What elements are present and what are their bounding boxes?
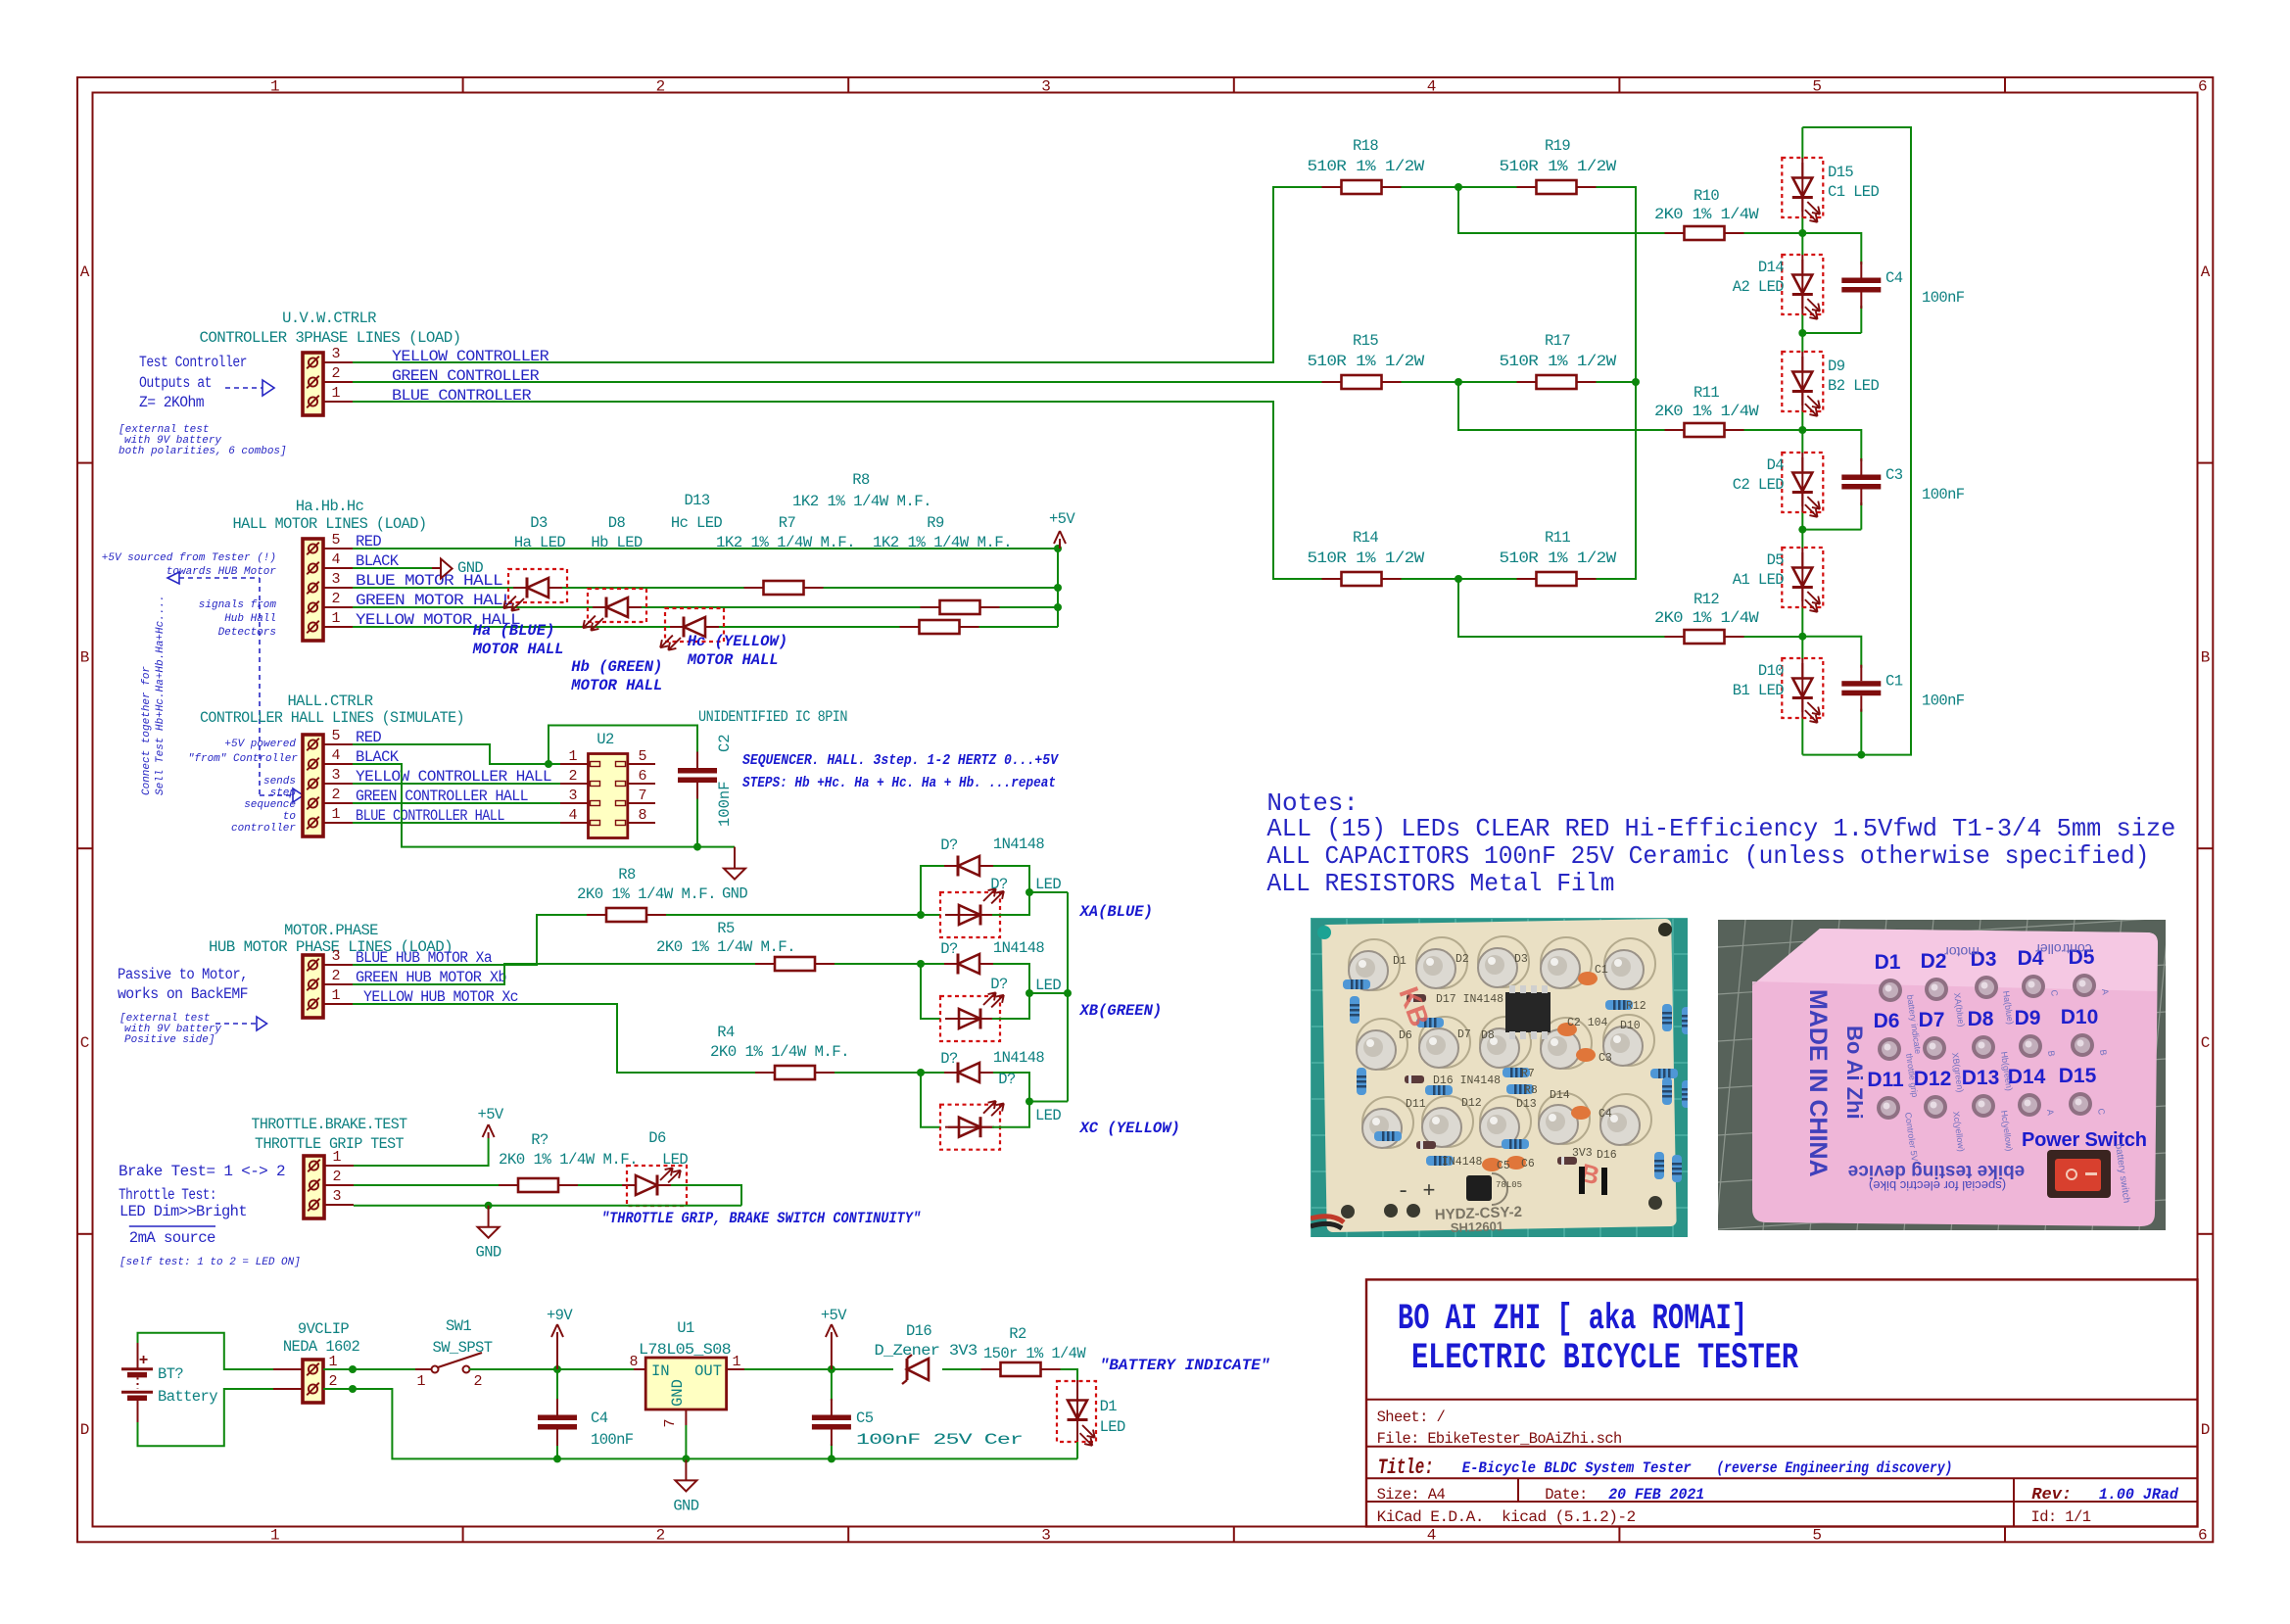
svg-text:both polarities, 6 combos]: both polarities, 6 combos] <box>119 446 287 457</box>
svg-text:A2 LED: A2 LED <box>1733 278 1785 296</box>
svg-text:R14: R14 <box>1353 529 1378 547</box>
svg-text:+5V: +5V <box>478 1106 504 1123</box>
svg-text:C4: C4 <box>591 1409 608 1427</box>
svg-text:D6: D6 <box>648 1129 666 1147</box>
svg-text:LED: LED <box>1035 1107 1061 1124</box>
svg-text:C2 104: C2 104 <box>1567 1017 1608 1029</box>
svg-text:510R 1% 1/2W: 510R 1% 1/2W <box>1500 353 1617 370</box>
svg-text:MOTOR HALL: MOTOR HALL <box>687 651 779 669</box>
svg-text:100nF: 100nF <box>1922 693 1965 710</box>
svg-text:D3: D3 <box>1514 953 1528 966</box>
svg-text:MOTOR HALL: MOTOR HALL <box>570 677 662 694</box>
svg-text:D6: D6 <box>1399 1029 1412 1042</box>
svg-text:2K0 1% 1/4W: 2K0 1% 1/4W <box>1654 403 1759 420</box>
svg-text:Detectors: Detectors <box>218 627 276 639</box>
svg-text:LED: LED <box>1100 1418 1125 1436</box>
svg-text:Ha.Hb.Hc: Ha.Hb.Hc <box>296 498 364 515</box>
svg-text:100nF 25V Cer: 100nF 25V Cer <box>856 1431 1023 1449</box>
svg-text:Hb LED: Hb LED <box>591 534 643 551</box>
svg-text:IN4148: IN4148 <box>1442 1156 1483 1169</box>
svg-text:510R 1% 1/2W: 510R 1% 1/2W <box>1308 158 1425 175</box>
svg-text:6: 6 <box>638 768 646 785</box>
svg-text:4: 4 <box>1427 78 1437 96</box>
svg-text:R12: R12 <box>1694 591 1719 608</box>
svg-text:Rev:: Rev: <box>2031 1486 2072 1505</box>
svg-text:1.00 JRad: 1.00 JRad <box>2099 1486 2179 1504</box>
svg-text:+: + <box>139 1352 149 1369</box>
svg-text:ebike testing device: ebike testing device <box>1848 1161 2026 1181</box>
svg-text:GREEN CONTROLLER: GREEN CONTROLLER <box>392 367 539 385</box>
svg-text:D7: D7 <box>1919 1009 1945 1031</box>
svg-text:100nF: 100nF <box>591 1431 634 1449</box>
svg-text:510R 1% 1/2W: 510R 1% 1/2W <box>1308 549 1425 567</box>
svg-text:C: C <box>2201 1034 2211 1052</box>
svg-text:C1: C1 <box>1595 964 1608 977</box>
svg-text:R11: R11 <box>1694 384 1719 402</box>
svg-text:2: 2 <box>656 78 666 96</box>
svg-text:1N4148: 1N4148 <box>993 939 1045 957</box>
svg-text:Title:: Title: <box>1378 1456 1434 1480</box>
svg-text:A1 LED: A1 LED <box>1733 571 1785 589</box>
svg-text:D16: D16 <box>1597 1149 1617 1162</box>
svg-text:C3: C3 <box>1598 1052 1612 1065</box>
svg-text:78L05: 78L05 <box>1496 1180 1522 1190</box>
svg-text:ALL (15) LEDs CLEAR RED Hi-Eff: ALL (15) LEDs CLEAR RED Hi-Efficiency 1.… <box>1266 814 2175 843</box>
svg-text:8: 8 <box>629 1354 638 1370</box>
svg-text:D8: D8 <box>1481 1029 1495 1042</box>
svg-text:D10: D10 <box>1758 662 1784 680</box>
svg-text:D13: D13 <box>1962 1067 2000 1089</box>
svg-text:NEDA 1602: NEDA 1602 <box>283 1338 360 1356</box>
svg-text:3: 3 <box>331 346 340 362</box>
svg-text:D1: D1 <box>1875 951 1901 974</box>
svg-text:LED: LED <box>1035 977 1061 994</box>
svg-text:STEPS: Hb +Hc. Ha + Hc. Ha + H: STEPS: Hb +Hc. Ha + Hc. Ha + Hb. ...repe… <box>742 775 1056 791</box>
svg-text:Test Controller: Test Controller <box>139 354 247 371</box>
svg-text:GND: GND <box>673 1497 698 1514</box>
svg-text:R12: R12 <box>1626 1000 1646 1013</box>
svg-text:C5: C5 <box>856 1409 874 1427</box>
svg-text:8: 8 <box>638 807 646 824</box>
svg-text:1: 1 <box>328 1354 337 1370</box>
svg-text:1: 1 <box>568 748 577 765</box>
svg-text:Ha (BLUE): Ha (BLUE) <box>473 622 555 640</box>
svg-text:D5: D5 <box>1767 551 1785 569</box>
svg-text:Hb (GREEN): Hb (GREEN) <box>571 658 662 676</box>
svg-text:D16 IN4148: D16 IN4148 <box>1433 1075 1501 1087</box>
svg-text:100nF: 100nF <box>1922 289 1965 307</box>
svg-text:D?: D? <box>940 1050 958 1068</box>
svg-text:GND: GND <box>476 1244 501 1262</box>
svg-text:1: 1 <box>270 78 280 96</box>
svg-text:1: 1 <box>270 1527 280 1545</box>
svg-text:C2: C2 <box>716 734 734 752</box>
svg-text:D8: D8 <box>1968 1008 1994 1030</box>
svg-text:step: step <box>270 788 296 799</box>
svg-text:(special for electric bike): (special for electric bike) <box>1869 1178 2006 1193</box>
svg-text:XC (YELLOW): XC (YELLOW) <box>1079 1120 1180 1137</box>
svg-text:D10: D10 <box>2061 1006 2099 1028</box>
svg-text:Hub Hall: Hub Hall <box>224 613 276 625</box>
svg-text:SW1: SW1 <box>446 1317 471 1335</box>
svg-text:Sheet: /: Sheet: / <box>1377 1409 1446 1426</box>
svg-text:Battery: Battery <box>158 1388 217 1406</box>
svg-text:R17: R17 <box>1545 332 1570 350</box>
svg-text:R?: R? <box>531 1131 549 1149</box>
svg-text:D?: D? <box>940 836 958 854</box>
svg-text:Z= 2KOhm: Z= 2KOhm <box>139 394 204 411</box>
svg-text:3: 3 <box>568 788 577 804</box>
svg-text:2: 2 <box>568 768 577 785</box>
svg-text:5: 5 <box>1812 78 1822 96</box>
svg-text:controller: controller <box>2035 941 2092 957</box>
svg-text:20 FEB 2021: 20 FEB 2021 <box>1608 1486 1704 1504</box>
svg-text:Passive to Motor,: Passive to Motor, <box>118 966 248 983</box>
svg-text:Ha LED: Ha LED <box>514 534 566 551</box>
svg-text:A: A <box>2201 263 2211 281</box>
svg-text:YELLOW CONTROLLER: YELLOW CONTROLLER <box>392 348 549 365</box>
svg-text:2K0 1% 1/4W: 2K0 1% 1/4W <box>1654 206 1759 223</box>
svg-text:R8: R8 <box>1524 1084 1538 1097</box>
svg-text:5: 5 <box>638 748 646 765</box>
svg-text:1: 1 <box>331 385 340 402</box>
svg-text:D?: D? <box>990 976 1008 993</box>
svg-text:D13: D13 <box>684 492 709 509</box>
svg-text:MADE IN CHINA: MADE IN CHINA <box>1804 989 1832 1177</box>
svg-text:towards HUB Motor: towards HUB Motor <box>167 566 277 578</box>
svg-text:IN: IN <box>651 1362 670 1380</box>
svg-text:C3: C3 <box>1885 466 1903 484</box>
svg-text:1N4148: 1N4148 <box>993 1049 1045 1067</box>
svg-text:6: 6 <box>2198 1527 2208 1545</box>
svg-text:1: 1 <box>332 1149 341 1166</box>
svg-text:D?: D? <box>940 940 958 958</box>
svg-text:signals from: signals from <box>199 599 277 611</box>
svg-text:510R 1% 1/2W: 510R 1% 1/2W <box>1500 549 1617 567</box>
svg-text:R2: R2 <box>1009 1325 1026 1343</box>
svg-text:510R 1% 1/2W: 510R 1% 1/2W <box>1500 158 1617 175</box>
svg-text:2K0 1% 1/4W: 2K0 1% 1/4W <box>1654 609 1759 627</box>
svg-text:Brake Test= 1 <-> 2: Brake Test= 1 <-> 2 <box>119 1163 285 1180</box>
svg-text:1K2 1% 1/4W M.F.: 1K2 1% 1/4W M.F. <box>716 534 855 551</box>
svg-text:D3: D3 <box>530 514 548 532</box>
svg-text:D_Zener 3V3: D_Zener 3V3 <box>875 1342 978 1360</box>
svg-text:4: 4 <box>568 807 577 824</box>
svg-text:HALL MOTOR LINES (LOAD): HALL MOTOR LINES (LOAD) <box>233 515 427 533</box>
svg-text:Hc LED: Hc LED <box>671 514 723 532</box>
svg-text:U1: U1 <box>677 1319 694 1337</box>
svg-text:B: B <box>80 648 90 666</box>
svg-text:THROTTLE GRIP TEST: THROTTLE GRIP TEST <box>255 1135 404 1153</box>
svg-text:D8: D8 <box>608 514 626 532</box>
svg-text:1K2 1% 1/4W M.F.: 1K2 1% 1/4W M.F. <box>792 493 931 510</box>
svg-text:GND: GND <box>457 559 483 577</box>
svg-text:File: EbikeTester_BoAiZhi.sch: File: EbikeTester_BoAiZhi.sch <box>1377 1430 1622 1448</box>
svg-text:2mA source: 2mA source <box>129 1229 215 1247</box>
svg-text:510R 1% 1/2W: 510R 1% 1/2W <box>1308 353 1425 370</box>
svg-text:sequence: sequence <box>244 799 296 811</box>
svg-text:D9: D9 <box>1828 358 1845 375</box>
svg-text:R4: R4 <box>717 1024 735 1041</box>
svg-text:E-Bicycle BLDC System Tester: E-Bicycle BLDC System Tester <box>1462 1459 1692 1477</box>
svg-text:C2 LED: C2 LED <box>1733 476 1785 494</box>
svg-text:Bo Ai Zhi: Bo Ai Zhi <box>1842 1026 1867 1120</box>
svg-text:C1: C1 <box>1885 673 1903 691</box>
svg-text:1: 1 <box>732 1354 740 1370</box>
svg-text:LED: LED <box>662 1151 688 1169</box>
svg-text:2: 2 <box>331 787 340 803</box>
svg-text:A: A <box>80 263 90 281</box>
svg-text:D1: D1 <box>1100 1398 1118 1415</box>
svg-text:"THROTTLE GRIP, BRAKE SWITCH C: "THROTTLE GRIP, BRAKE SWITCH CONTINUITY" <box>601 1210 921 1227</box>
svg-text:U2: U2 <box>596 731 614 748</box>
svg-text:3: 3 <box>332 1188 341 1205</box>
svg-text:D14: D14 <box>1758 259 1784 276</box>
svg-text:Connect together for: Connect together for <box>141 666 153 795</box>
svg-text:GND: GND <box>669 1379 687 1407</box>
svg-text:to: to <box>283 811 296 823</box>
svg-text:R15: R15 <box>1353 332 1378 350</box>
svg-text:R19: R19 <box>1545 137 1570 155</box>
svg-text:1: 1 <box>331 806 340 823</box>
svg-text:C1 LED: C1 LED <box>1828 183 1880 201</box>
svg-text:D9: D9 <box>2015 1007 2041 1029</box>
svg-text:150r 1% 1/4W: 150r 1% 1/4W <box>983 1345 1086 1362</box>
svg-text:Size: A4: Size: A4 <box>1377 1486 1446 1504</box>
svg-text:1K2 1% 1/4W M.F.: 1K2 1% 1/4W M.F. <box>873 534 1012 551</box>
svg-text:ALL CAPACITORS 100nF 25V Ceram: ALL CAPACITORS 100nF 25V Ceramic (unless… <box>1266 841 2149 871</box>
svg-text:4: 4 <box>331 747 340 764</box>
svg-text:R8: R8 <box>618 866 636 884</box>
svg-text:- +: - + <box>1397 1179 1436 1204</box>
svg-text:2: 2 <box>331 591 340 607</box>
svg-text:2: 2 <box>473 1373 482 1390</box>
svg-text:D2: D2 <box>1455 953 1469 966</box>
svg-text:ALL RESISTORS Metal Film: ALL RESISTORS Metal Film <box>1266 869 1614 898</box>
svg-text:2: 2 <box>328 1373 337 1390</box>
svg-text:2: 2 <box>656 1527 666 1545</box>
svg-text:D7: D7 <box>1457 1028 1471 1041</box>
svg-text:motor: motor <box>1944 944 1980 960</box>
svg-text:3: 3 <box>1041 78 1051 96</box>
svg-text:CONTROLLER HALL LINES (SIMULAT: CONTROLLER HALL LINES (SIMULATE) <box>200 709 464 727</box>
svg-text:R9: R9 <box>927 514 944 532</box>
svg-text:D13: D13 <box>1516 1098 1537 1111</box>
svg-text:Positive side]: Positive side] <box>124 1034 215 1046</box>
svg-text:Power Switch: Power Switch <box>2022 1129 2147 1151</box>
svg-text:SH12601: SH12601 <box>1451 1218 1504 1235</box>
svg-text:Sell Test Hb+Hc.Ha+Hb.Ha+Hc...: Sell Test Hb+Hc.Ha+Hb.Ha+Hc.... <box>155 595 167 795</box>
svg-text:R11: R11 <box>1545 529 1570 547</box>
svg-text:D15: D15 <box>1828 164 1853 181</box>
svg-text:THROTTLE.BRAKE.TEST: THROTTLE.BRAKE.TEST <box>252 1116 407 1133</box>
svg-text:2K0 1% 1/4W M.F.: 2K0 1% 1/4W M.F. <box>577 885 716 903</box>
svg-text:MOTOR HALL: MOTOR HALL <box>472 641 564 658</box>
svg-text:100nF: 100nF <box>716 781 734 827</box>
svg-text:1: 1 <box>331 987 340 1004</box>
svg-text:D4: D4 <box>1767 456 1785 474</box>
svg-text:C4: C4 <box>1885 269 1903 287</box>
svg-text:ELECTRIC BICYCLE TESTER: ELECTRIC BICYCLE TESTER <box>1411 1338 1799 1379</box>
svg-text:D15: D15 <box>2059 1065 2097 1087</box>
svg-text:sends: sends <box>263 776 296 788</box>
svg-text:C5: C5 <box>1497 1160 1510 1172</box>
svg-text:D2: D2 <box>1921 950 1947 973</box>
svg-text:UNIDENTIFIED IC 8PIN: UNIDENTIFIED IC 8PIN <box>698 708 847 726</box>
svg-text:2: 2 <box>331 365 340 382</box>
svg-text:4: 4 <box>1427 1527 1437 1545</box>
svg-text:D12: D12 <box>1461 1097 1482 1110</box>
svg-text:+5V: +5V <box>821 1307 847 1324</box>
svg-text:R10: R10 <box>1694 187 1719 205</box>
svg-text:BLUE CONTROLLER: BLUE CONTROLLER <box>392 387 531 405</box>
svg-text:D?: D? <box>990 876 1008 893</box>
svg-text:C6: C6 <box>1521 1158 1535 1170</box>
svg-text:"BATTERY INDICATE": "BATTERY INDICATE" <box>1100 1357 1270 1374</box>
svg-text:+9V: +9V <box>547 1307 573 1324</box>
svg-text:LED Dim>>Bright: LED Dim>>Bright <box>119 1203 247 1220</box>
svg-text:+5V powered: +5V powered <box>224 739 296 750</box>
svg-text:7: 7 <box>638 788 646 804</box>
svg-text:5: 5 <box>331 728 340 744</box>
svg-text:5: 5 <box>331 532 340 549</box>
svg-text:4: 4 <box>331 551 340 568</box>
svg-text:BT?: BT? <box>158 1365 183 1383</box>
svg-text:SEQUENCER. HALL. 3step. 1-2 HE: SEQUENCER. HALL. 3step. 1-2 HERTZ 0...+5… <box>742 752 1060 769</box>
svg-text:(reverse Engineering discovery: (reverse Engineering discovery) <box>1716 1459 1952 1477</box>
svg-text:D16: D16 <box>906 1322 931 1340</box>
svg-text:3: 3 <box>331 767 340 784</box>
svg-text:C4: C4 <box>1598 1108 1612 1121</box>
svg-text:3: 3 <box>331 571 340 588</box>
svg-text:9VCLIP: 9VCLIP <box>298 1320 350 1338</box>
svg-text:1: 1 <box>416 1373 425 1390</box>
svg-text:works on BackEMF: works on BackEMF <box>118 985 248 1003</box>
svg-text:D: D <box>2201 1421 2211 1439</box>
svg-text:XA(BLUE): XA(BLUE) <box>1079 903 1153 921</box>
svg-text:Hc (YELLOW): Hc (YELLOW) <box>688 633 787 650</box>
svg-text:2: 2 <box>332 1169 341 1185</box>
svg-text:LED: LED <box>1035 876 1061 893</box>
svg-text:+5V sourced from Tester (!): +5V sourced from Tester (!) <box>102 552 276 564</box>
svg-text:D10: D10 <box>1620 1020 1641 1032</box>
svg-text:BO AI ZHI [ aka ROMAI]: BO AI ZHI [ aka ROMAI] <box>1398 1299 1747 1340</box>
svg-text:L78L05_S08: L78L05_S08 <box>639 1341 731 1359</box>
svg-text:100nF: 100nF <box>1922 486 1965 503</box>
svg-text:1N4148: 1N4148 <box>993 836 1045 853</box>
svg-text:D17 IN4148: D17 IN4148 <box>1436 993 1503 1006</box>
svg-text:Date:: Date: <box>1545 1486 1588 1504</box>
svg-text:2K0 1% 1/4W M.F.: 2K0 1% 1/4W M.F. <box>499 1151 638 1169</box>
svg-text:D?: D? <box>998 1071 1016 1088</box>
svg-text:Id: 1/1: Id: 1/1 <box>2031 1508 2091 1526</box>
svg-text:6: 6 <box>2198 78 2208 96</box>
svg-text:Outputs at: Outputs at <box>139 374 212 392</box>
svg-text:KiCad E.D.A. kicad (5.1.2)-2: KiCad E.D.A. kicad (5.1.2)-2 <box>1377 1508 1636 1526</box>
svg-text:XB(GREEN): XB(GREEN) <box>1079 1002 1163 1020</box>
svg-text:D11: D11 <box>1406 1098 1426 1111</box>
svg-text:R7: R7 <box>1521 1068 1535 1080</box>
svg-text:5: 5 <box>1812 1527 1822 1545</box>
svg-text:U.V.W.CTRLR: U.V.W.CTRLR <box>282 310 376 327</box>
svg-text:2K0 1% 1/4W M.F.: 2K0 1% 1/4W M.F. <box>710 1043 849 1061</box>
svg-text:D14: D14 <box>1550 1089 1570 1102</box>
svg-text:[self test: 1 to 2 = LED ON]: [self test: 1 to 2 = LED ON] <box>119 1257 301 1268</box>
svg-text:3: 3 <box>331 948 340 965</box>
svg-text:2K0 1% 1/4W M.F.: 2K0 1% 1/4W M.F. <box>656 938 795 956</box>
svg-text:OUT: OUT <box>694 1362 722 1380</box>
svg-text:B1 LED: B1 LED <box>1733 682 1785 699</box>
svg-text:Throttle Test:: Throttle Test: <box>119 1186 216 1204</box>
svg-text:7: 7 <box>662 1418 679 1427</box>
svg-text:R7: R7 <box>779 514 796 532</box>
svg-text:R5: R5 <box>717 920 735 937</box>
svg-text:controller: controller <box>231 823 296 835</box>
svg-text:GND: GND <box>722 885 747 903</box>
svg-text:SW_SPST: SW_SPST <box>433 1339 493 1357</box>
svg-text:D1: D1 <box>1393 955 1407 968</box>
svg-text:D11: D11 <box>1867 1069 1904 1091</box>
svg-text:R18: R18 <box>1353 137 1378 155</box>
svg-text:"from" Controller: "from" Controller <box>188 753 299 765</box>
svg-text:B2 LED: B2 LED <box>1828 377 1880 395</box>
svg-text:CONTROLLER 3PHASE LINES (LOAD): CONTROLLER 3PHASE LINES (LOAD) <box>200 329 461 347</box>
svg-text:1: 1 <box>331 610 340 627</box>
svg-text:MOTOR.PHASE: MOTOR.PHASE <box>284 922 378 939</box>
svg-text:D: D <box>80 1421 90 1439</box>
svg-text:R8: R8 <box>852 471 870 489</box>
svg-text:3: 3 <box>1041 1527 1051 1545</box>
svg-text:+5V: +5V <box>1049 510 1075 528</box>
svg-text:2: 2 <box>331 968 340 984</box>
svg-text:B: B <box>2201 648 2211 666</box>
svg-text:3V3: 3V3 <box>1572 1147 1593 1160</box>
svg-text:D6: D6 <box>1874 1010 1900 1032</box>
svg-text:C: C <box>80 1034 90 1052</box>
svg-text:HALL.CTRLR: HALL.CTRLR <box>287 693 372 710</box>
